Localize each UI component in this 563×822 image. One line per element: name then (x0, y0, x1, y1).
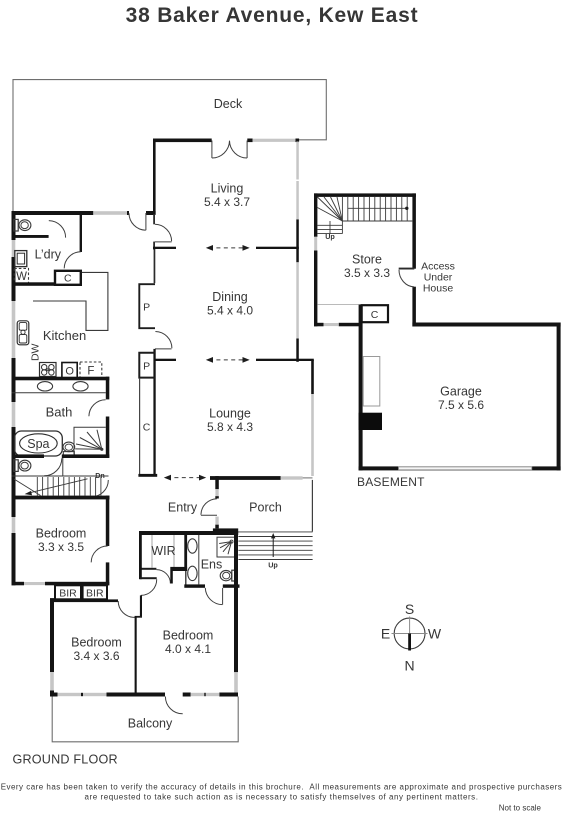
svg-text:Lounge: Lounge (209, 407, 251, 421)
WIR door arc (157, 570, 171, 584)
balcony door arc (165, 697, 182, 714)
laundry closet C box (55, 271, 81, 285)
svg-text:C: C (64, 273, 72, 285)
laundry door arc (64, 252, 81, 269)
ens toilet (220, 570, 236, 581)
wc toilet (14, 460, 31, 472)
living door leaf+arc (155, 224, 172, 242)
L-stub wall right of WIR door (170, 567, 187, 571)
svg-text:P: P (143, 361, 150, 373)
svg-text:F: F (87, 366, 94, 378)
kitchen sink (17, 321, 29, 345)
steps up arrow (272, 537, 274, 557)
living/dining divider (153, 247, 299, 249)
laundry trough (15, 251, 27, 267)
svg-text:3.3 x 3.5: 3.3 x 3.5 (38, 540, 84, 554)
store C box (362, 305, 388, 322)
lounge left wall thick (153, 349, 155, 476)
stairs top line (12, 475, 109, 477)
garage bottom wall (359, 466, 561, 470)
bath door arc (89, 400, 106, 417)
entry open-plan arrow (164, 475, 206, 481)
BIR boxes (55, 585, 81, 599)
svg-text:Bedroom: Bedroom (71, 636, 122, 650)
porch right thin wall (311, 480, 313, 532)
cooktop (40, 363, 57, 377)
svg-text:Up: Up (268, 561, 278, 570)
WIR shelf lines (151, 535, 153, 568)
svg-text:Entry: Entry (168, 501, 198, 515)
svg-text:Garage: Garage (440, 385, 482, 399)
svg-text:5.4 x 3.7: 5.4 x 3.7 (204, 195, 250, 209)
kitchen/bath divider wall (12, 377, 110, 381)
living top wall (153, 139, 299, 143)
svg-text:Dining: Dining (212, 290, 247, 304)
vanity bench (12, 392, 106, 394)
front door wall segments (215, 476, 219, 528)
svg-text:Store: Store (352, 253, 382, 267)
Ens left wall (184, 535, 187, 571)
living right wall (296, 219, 299, 361)
svg-text:Living: Living (211, 182, 244, 196)
garage door inset (399, 467, 532, 470)
svg-text:N: N (405, 658, 415, 674)
svg-text:3.5 x 3.3: 3.5 x 3.3 (344, 266, 390, 280)
compass cross (392, 633, 428, 635)
svg-text:Bedroom: Bedroom (36, 527, 87, 541)
porch stub wall (213, 528, 238, 533)
access door leaf+arc (399, 268, 415, 270)
svg-text:38 Baker Avenue, Kew East: 38 Baker Avenue, Kew East (126, 4, 419, 27)
svg-text:Not to scale: Not to scale (499, 804, 542, 813)
porch top wall (210, 476, 281, 480)
oven O box (62, 363, 77, 379)
compass north pointer (408, 634, 411, 651)
bed1 right wall (106, 496, 110, 586)
living left wall (153, 139, 156, 215)
laundry WC door arc (49, 221, 66, 238)
living top window (253, 139, 296, 142)
store ceiling break line (317, 304, 360, 306)
french doors to deck (212, 141, 247, 159)
bed3 right wall (234, 531, 238, 697)
dining left thin wall (154, 249, 156, 283)
front door leaf+arc (201, 499, 217, 516)
WIR bottom wall (139, 568, 156, 570)
stair diagonal + down arrow (14, 479, 41, 496)
svg-text:Bedroom: Bedroom (163, 629, 214, 643)
svg-text:BIR: BIR (86, 588, 104, 600)
svg-text:S: S (405, 601, 414, 617)
laundry WC bottom wall (12, 235, 49, 238)
store bottom wall (314, 323, 361, 327)
svg-text:E: E (381, 626, 390, 642)
bath right wall (106, 377, 110, 458)
compass circle (394, 618, 425, 649)
spa (15, 431, 63, 456)
svg-text:BASEMENT: BASEMENT (357, 475, 425, 489)
dining door leaf+arc (155, 332, 172, 349)
svg-text:Bath: Bath (46, 405, 73, 420)
store left wall (314, 193, 317, 326)
vanity basins (37, 382, 52, 391)
bed1 top wall (12, 496, 110, 500)
svg-text:DW: DW (30, 343, 42, 361)
fridge F dashed box (80, 362, 102, 379)
bath bottom wall (12, 454, 110, 458)
notch jut at laundry wall join (146, 211, 156, 215)
bath toilet (63, 442, 75, 455)
svg-text:Spa: Spa (27, 437, 49, 451)
lower flight treads (317, 221, 342, 234)
laundry top wall (12, 211, 94, 215)
store stair treads (upper flight) (342, 197, 412, 234)
balcony outline (52, 697, 238, 742)
stair direction line + dot (348, 207, 407, 209)
laundry bottom wall (12, 282, 55, 286)
dining/lounge divider (154, 359, 314, 361)
bed2 left wall (50, 598, 54, 696)
bed2/bed3 divider wall lower (135, 617, 137, 697)
svg-text:House: House (423, 283, 454, 295)
front steps (238, 532, 312, 560)
svg-text:C: C (371, 309, 379, 321)
wc door arc (44, 458, 62, 476)
garage fireplace block (359, 413, 382, 430)
garage workbench (363, 357, 380, 407)
stairs door arc (92, 480, 109, 497)
bed2 top wall (50, 599, 118, 602)
svg-text:W: W (428, 626, 442, 642)
divider jog (135, 616, 142, 618)
bed3 door leaf (140, 577, 157, 579)
bed2/bed3 divider wall upper (140, 595, 142, 617)
WIR left wall (139, 535, 142, 569)
svg-text:W: W (16, 271, 27, 283)
svg-text:O: O (65, 366, 74, 378)
store top wall (314, 193, 416, 197)
left wall windows (12, 240, 16, 533)
svg-text:Balcony: Balcony (128, 717, 173, 731)
svg-text:Up: Up (325, 232, 335, 241)
svg-text:Dn: Dn (95, 471, 105, 480)
deck outline (13, 80, 326, 211)
bed2 door arc (118, 601, 134, 617)
laundry right wall (80, 211, 82, 252)
washing machine W dashed (14, 268, 28, 283)
svg-text:P: P (143, 302, 150, 314)
wc right thin wall (62, 458, 64, 476)
svg-text:C: C (143, 422, 151, 434)
entry bottom wall (WIR/Ens top) (139, 531, 238, 535)
svg-text:GROUND FLOOR: GROUND FLOOR (13, 753, 118, 767)
svg-text:BIR: BIR (59, 588, 77, 600)
bed3 bottom wall (135, 693, 238, 697)
laundry WC toilet (14, 219, 31, 231)
winder fan lines (317, 197, 342, 221)
svg-text:7.5 x 5.6: 7.5 x 5.6 (438, 398, 484, 412)
ens basins (188, 539, 197, 553)
stair risers (37, 477, 101, 496)
bath shower (74, 427, 106, 454)
svg-text:3.4 x 3.6: 3.4 x 3.6 (73, 649, 119, 663)
garage top wall (412, 323, 560, 327)
bed3 door arc (141, 579, 157, 595)
garage right wall (557, 323, 561, 471)
ens vanity bench (198, 535, 200, 584)
svg-text:5.8 x 4.3: 5.8 x 4.3 (207, 420, 253, 434)
svg-text:L’dry: L’dry (35, 248, 62, 262)
store right wall (412, 193, 416, 326)
ens bottom wall (184, 584, 239, 587)
ens shower (217, 537, 236, 557)
garage left wall (359, 305, 363, 471)
WIR left wall lower part (139, 568, 142, 579)
svg-text:WIR: WIR (151, 544, 175, 558)
svg-text:Kitchen: Kitchen (43, 328, 86, 343)
svg-text:Ens: Ens (201, 558, 223, 572)
svg-text:Porch: Porch (249, 501, 282, 515)
bed1 door arc (91, 546, 107, 562)
hall closet C (tall) (139, 379, 140, 475)
lounge right wall (311, 360, 314, 394)
open-plan arrows living/dining (206, 245, 250, 251)
pantry P1 box (139, 284, 155, 328)
living left wall thin segments + door (153, 214, 155, 224)
bed1 bottom wall (12, 582, 110, 586)
kitchen counter line (33, 272, 108, 330)
svg-text:Every care has been taken to v: Every care has been taken to verify the … (1, 783, 563, 792)
ens door leaf+arc (205, 588, 222, 605)
svg-text:Deck: Deck (214, 97, 243, 111)
bed2 bottom wall (50, 693, 138, 697)
pantry P2 box (139, 353, 155, 378)
svg-text:4.0 x 4.1: 4.0 x 4.1 (165, 642, 211, 656)
svg-text:are requested to take such act: are requested to take such action as is … (85, 793, 479, 802)
svg-text:5.4 x 4.0: 5.4 x 4.0 (207, 304, 253, 318)
back door leaf+arc (129, 213, 146, 230)
